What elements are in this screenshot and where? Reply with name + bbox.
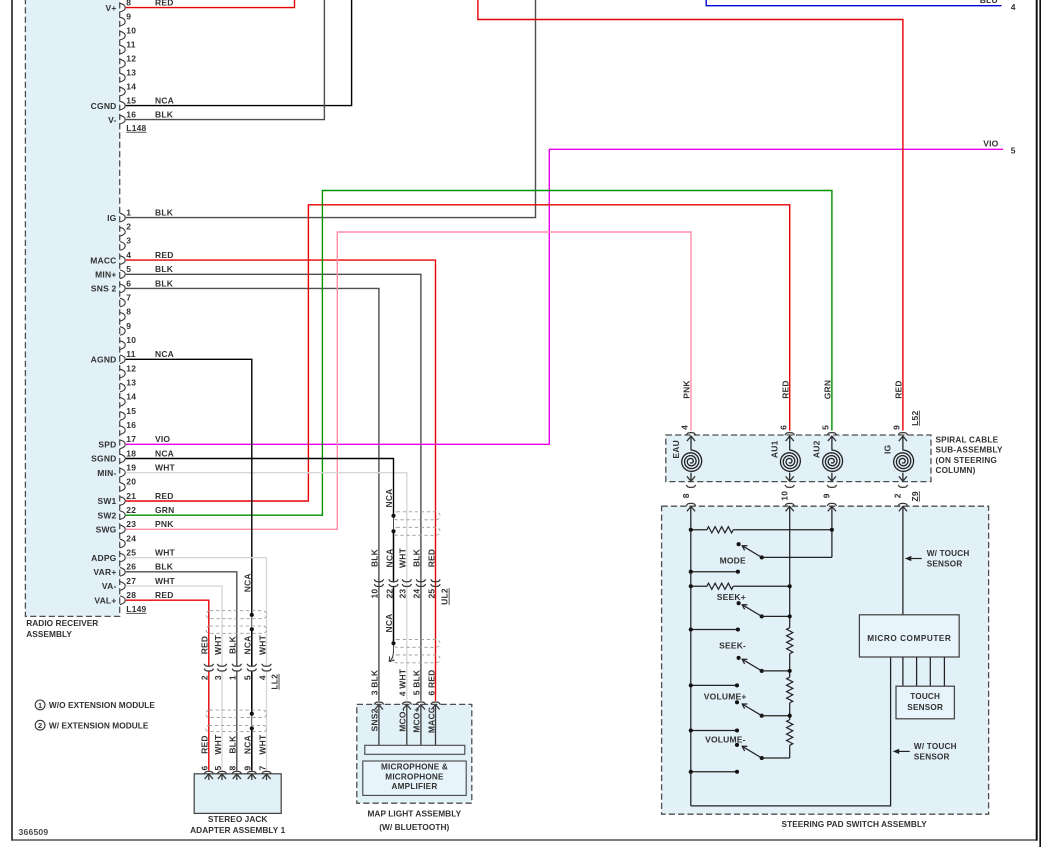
pin label CGND: [91, 101, 117, 111]
svg-text:RED: RED: [155, 250, 174, 260]
svg-text:NCA: NCA: [384, 488, 394, 507]
wire SW1 RED pin21 to spiral AU1: [126, 205, 790, 501]
connector L52 pin numbers: [680, 425, 902, 430]
svg-text:8: 8: [126, 307, 131, 317]
wire VAL+ RED pin28 to stereo jack: [126, 600, 209, 770]
mode switch contact stub: [689, 570, 740, 574]
wire label RED pin8: [155, 0, 174, 7]
inline connector LL2 couplers: [204, 664, 271, 671]
svg-text:Z9: Z9: [910, 491, 920, 501]
pin label V+: [105, 3, 116, 13]
stereo jack entry arrows: [205, 774, 271, 780]
svg-text:STEERING PAD SWITCH ASSEMBLY: STEERING PAD SWITCH ASSEMBLY: [782, 819, 928, 829]
svg-text:MCO+: MCO+: [412, 707, 422, 733]
svg-text:BLK: BLK: [155, 264, 174, 274]
svg-text:26: 26: [126, 562, 136, 572]
connector L149 pin name labels: [90, 213, 116, 606]
pin10 segment R3-R4: [789, 703, 791, 720]
svg-text:COLUMN): COLUMN): [936, 466, 976, 475]
svg-text:SENSOR: SENSOR: [914, 752, 950, 761]
svg-text:5: 5: [243, 675, 253, 680]
svg-text:VIO: VIO: [983, 139, 998, 149]
svg-text:27: 27: [126, 576, 136, 586]
touch sensor box: [896, 686, 954, 719]
NCA shield label map upper: [384, 488, 394, 507]
map light entry couplers: [374, 702, 440, 704]
svg-text:2: 2: [38, 721, 42, 730]
svg-text:8: 8: [126, 0, 131, 7]
microphone amplifier box: [363, 761, 466, 795]
footnote 2 w/ extension module: [35, 720, 149, 730]
connector id L148: [126, 123, 146, 133]
wire SW2 GRN pin22 to spiral AU2: [126, 191, 832, 516]
svg-text:IG: IG: [883, 444, 893, 454]
svg-text:24: 24: [126, 533, 136, 543]
svg-text:TOUCH: TOUCH: [910, 692, 940, 701]
svg-text:11: 11: [126, 39, 135, 49]
UL2 wire color labels: [370, 547, 437, 568]
seek- switch label: [719, 641, 746, 651]
mode switch label: [720, 556, 746, 566]
svg-text:18: 18: [126, 448, 136, 458]
svg-text:11: 11: [126, 349, 135, 359]
bottom return wire: [691, 657, 891, 806]
svg-text:21: 21: [126, 491, 136, 501]
connector L149 wire color labels: [155, 207, 176, 600]
wire label BLK pin16: [155, 109, 174, 119]
wire MIN- WHT pin19 to map light: [126, 473, 407, 701]
svg-text:MAP LIGHT ASSEMBLY: MAP LIGHT ASSEMBLY: [367, 809, 461, 819]
svg-text:UL2: UL2: [440, 588, 450, 605]
svg-text:10: 10: [370, 589, 380, 599]
svg-text:VIO: VIO: [155, 434, 170, 444]
wire V- BLK pin16: [126, 0, 325, 120]
svg-text:WHT: WHT: [213, 734, 223, 755]
shield map lower drain dot: [391, 641, 395, 645]
svg-text:20: 20: [126, 477, 136, 487]
micro computer to touch sensor links: [903, 657, 945, 686]
wire VAR+ BLK pin26 to stereo jack: [126, 572, 237, 771]
svg-text:NCA: NCA: [243, 635, 253, 654]
wire ADPG WHT pin25 to stereo jack: [126, 558, 267, 771]
svg-text:16: 16: [126, 109, 136, 119]
resistor mode row: [691, 527, 832, 533]
svg-text:1: 1: [126, 207, 131, 217]
svg-text:V+: V+: [105, 3, 116, 13]
pin10 segment to volume-: [762, 745, 790, 758]
svg-text:15: 15: [126, 95, 136, 105]
svg-text:RADIO RECEIVER: RADIO RECEIVER: [26, 618, 98, 628]
svg-text:3: 3: [126, 236, 131, 246]
page border left: [11, 0, 13, 841]
junction dots seek resistor: [689, 584, 792, 588]
svg-text:SENSOR: SENSOR: [927, 560, 963, 569]
svg-text:6: 6: [200, 765, 210, 770]
svg-text:BLK: BLK: [155, 562, 174, 572]
spiral cable wire color labels: [682, 380, 904, 400]
svg-text:NCA: NCA: [243, 735, 253, 754]
page edge right: [1039, 0, 1041, 847]
svg-text:PNK: PNK: [682, 380, 692, 399]
junction dots mode resistor: [689, 528, 834, 532]
volume+ contact stub: [689, 728, 739, 732]
svg-text:RED: RED: [426, 549, 436, 568]
svg-text:SW2: SW2: [97, 510, 116, 520]
shield stereo lower: [206, 710, 267, 732]
svg-text:28: 28: [126, 590, 136, 600]
radio receiver assembly box: [25, 0, 119, 616]
svg-text:MCO-: MCO-: [398, 708, 408, 731]
junction dot seek+ pin10: [788, 614, 792, 618]
svg-text:L52: L52: [910, 411, 920, 426]
volume- contact stub: [689, 770, 739, 774]
svg-text:VOLUME-: VOLUME-: [705, 734, 746, 744]
svg-text:14: 14: [126, 81, 136, 91]
svg-text:13: 13: [126, 377, 136, 387]
svg-text:6 RED: 6 RED: [426, 669, 436, 695]
svg-text:366509: 366509: [19, 827, 49, 837]
svg-text:V-: V-: [108, 115, 116, 125]
off-page ref 5: [1011, 145, 1016, 155]
spiral cable exit couplers: [686, 485, 907, 487]
connector L148 pin arcs 8-16: [120, 3, 125, 124]
svg-text:W/ TOUCH: W/ TOUCH: [927, 549, 970, 558]
svg-text:RED: RED: [200, 735, 210, 754]
wire SWG PNK pin23 to spiral EAU: [126, 232, 691, 529]
svg-text:VAR+: VAR+: [93, 567, 116, 577]
micro computer label: [867, 634, 951, 643]
svg-text:BLK: BLK: [370, 548, 380, 567]
svg-text:MICROPHONE &: MICROPHONE &: [381, 763, 448, 772]
seek- contact stub: [689, 683, 739, 687]
stereo jack adapter box: [194, 774, 281, 814]
resistor R3 vertical: [787, 677, 793, 703]
svg-text:9: 9: [822, 493, 832, 498]
wire V+ RED pin8: [126, 0, 295, 8]
svg-text:ASSEMBLY: ASSEMBLY: [26, 629, 72, 639]
svg-text:W/O EXTENSION MODULE: W/O EXTENSION MODULE: [49, 700, 156, 710]
spiral cable coils: [682, 436, 914, 481]
svg-text:BLK: BLK: [155, 278, 174, 288]
connector Z9 pin numbers: [681, 491, 903, 501]
svg-text:RED: RED: [200, 636, 210, 655]
wire label NCA pin15: [155, 95, 174, 105]
svg-text:W/ TOUCH: W/ TOUCH: [914, 742, 957, 751]
inline connector UL2 couplers: [374, 579, 440, 586]
shield stereo lower drain dots: [250, 712, 254, 731]
svg-text:VA-: VA-: [102, 581, 117, 591]
NCA shield label stereo: [242, 573, 252, 592]
svg-text:22: 22: [384, 589, 394, 599]
map light terminal strip: [365, 745, 465, 754]
svg-text:SGND: SGND: [91, 454, 116, 464]
LL2 wire color labels: [200, 634, 268, 655]
footnote 1 w/o extension module: [35, 700, 155, 710]
svg-text:SNS2: SNS2: [370, 708, 380, 731]
svg-text:10: 10: [780, 491, 790, 501]
wire SNS2 BLK pin6 to map light: [126, 288, 379, 700]
svg-text:4: 4: [257, 675, 267, 680]
svg-text:25: 25: [426, 589, 436, 599]
svg-text:(W/ BLUETOOTH): (W/ BLUETOOTH): [379, 822, 449, 832]
svg-text:NCA: NCA: [384, 548, 394, 567]
volume+ switch: [735, 700, 790, 718]
pin10 feed wire: [789, 506, 791, 627]
svg-text:2: 2: [126, 222, 131, 232]
svg-text:22: 22: [126, 505, 136, 515]
resistor seek row: [691, 583, 790, 589]
svg-text:5: 5: [821, 425, 831, 430]
svg-text:NCA: NCA: [384, 613, 394, 632]
svg-text:3: 3: [213, 675, 223, 680]
svg-text:EAU: EAU: [671, 440, 681, 459]
map light assembly box: [357, 704, 472, 803]
left bus wire: [690, 506, 692, 806]
svg-text:5: 5: [1011, 145, 1016, 155]
connector id LL2: [270, 674, 280, 690]
svg-text:PNK: PNK: [155, 519, 174, 529]
svg-text:VOLUME+: VOLUME+: [704, 691, 747, 701]
svg-text:10: 10: [126, 335, 136, 345]
svg-text:12: 12: [126, 53, 136, 63]
svg-text:2: 2: [200, 675, 210, 680]
svg-text:ADAPTER ASSEMBLY 1: ADAPTER ASSEMBLY 1: [190, 825, 285, 835]
map light assembly label: [367, 809, 461, 833]
seek+ contact stub: [689, 627, 740, 631]
svg-text:SPD: SPD: [98, 440, 116, 450]
svg-text:25: 25: [126, 547, 136, 557]
svg-text:BLK: BLK: [155, 109, 174, 119]
connector id L52: [910, 411, 920, 426]
svg-text:LL2: LL2: [270, 674, 280, 690]
svg-text:W/ EXTENSION MODULE: W/ EXTENSION MODULE: [49, 720, 149, 730]
svg-text:BLK: BLK: [228, 635, 238, 654]
steering pad entry arrows: [687, 506, 907, 511]
shield stereo upper drain dots: [250, 613, 254, 631]
svg-text:RED: RED: [894, 380, 904, 399]
w/ touch sensor note lower: [893, 742, 957, 762]
svg-text:9: 9: [126, 321, 131, 331]
svg-text:AGND: AGND: [91, 355, 117, 365]
wire top RED to spiral IG: [478, 0, 903, 431]
svg-text:SEEK+: SEEK+: [717, 592, 746, 602]
svg-text:SWG: SWG: [96, 525, 117, 535]
svg-text:9: 9: [243, 765, 253, 770]
touch sensor label: [907, 692, 943, 712]
svg-text:6: 6: [778, 425, 788, 430]
resistor R4 vertical: [787, 720, 793, 746]
svg-text:4 WHT: 4 WHT: [398, 668, 408, 696]
shield map upper: [393, 512, 440, 536]
stereo jack wire color labels: [200, 734, 268, 755]
svg-text:6: 6: [126, 278, 131, 288]
svg-text:L149: L149: [126, 604, 146, 614]
radio receiver assembly label: [26, 618, 98, 639]
svg-text:BLK: BLK: [228, 735, 238, 754]
svg-text:SEEK-: SEEK-: [719, 641, 746, 651]
svg-text:GRN: GRN: [823, 380, 833, 400]
svg-text:WHT: WHT: [213, 634, 223, 655]
svg-text:RED: RED: [155, 590, 174, 600]
svg-text:MICRO COMPUTER: MICRO COMPUTER: [867, 634, 951, 643]
volume- switch: [735, 743, 764, 760]
w/ touch sensor note upper: [905, 549, 970, 569]
svg-text:MIN+: MIN+: [95, 269, 116, 279]
svg-text:IG: IG: [107, 213, 117, 223]
connector L149 pin numbers: [126, 207, 136, 600]
junction dot seek- pin10: [788, 669, 792, 673]
svg-text:12: 12: [126, 363, 136, 373]
connector L149 pin arcs 1-28: [120, 213, 125, 604]
stereo jack adapter label: [190, 814, 285, 835]
svg-text:BLU: BLU: [980, 0, 998, 5]
resistor R2 vertical: [787, 628, 793, 654]
svg-text:9: 9: [892, 425, 902, 430]
UL2 pin numbers: [370, 589, 437, 599]
svg-text:23: 23: [398, 589, 408, 599]
volume- switch label: [705, 734, 746, 744]
svg-text:BLK: BLK: [155, 207, 174, 217]
seek+ switch label: [717, 592, 746, 602]
map light wire pin labels: [370, 668, 437, 696]
svg-text:RED: RED: [155, 491, 174, 501]
svg-text:SENSOR: SENSOR: [907, 703, 943, 712]
svg-text:NCA: NCA: [242, 573, 252, 592]
svg-text:15: 15: [126, 406, 136, 416]
wire SGND NCA pin18 shield drain: [126, 458, 395, 661]
svg-text:SUB-ASSEMBLY: SUB-ASSEMBLY: [936, 446, 1003, 455]
wire SPD VIO pin17: [126, 149, 1003, 444]
svg-text:SNS 2: SNS 2: [91, 284, 117, 294]
svg-text:MIN-: MIN-: [97, 468, 116, 478]
NCA shield label map lower: [384, 613, 394, 632]
svg-text:RED: RED: [780, 380, 790, 399]
spiral cable assembly label: [936, 436, 1003, 475]
svg-text:VAL+: VAL+: [94, 595, 116, 605]
svg-text:CGND: CGND: [91, 101, 117, 111]
spiral cable box: [666, 435, 931, 482]
svg-text:1: 1: [38, 701, 42, 710]
connector id UL2: [440, 588, 450, 605]
stereo jack pin numbers: [200, 765, 268, 770]
wire VA- WHT pin27 to stereo jack: [126, 586, 222, 770]
svg-text:WHT: WHT: [155, 462, 176, 472]
svg-text:ADPG: ADPG: [91, 553, 117, 563]
svg-text:MACC: MACC: [90, 255, 116, 265]
wire MIN+ BLK pin5 to map light: [126, 274, 421, 701]
svg-text:NCA: NCA: [155, 349, 174, 359]
shield stereo upper: [206, 611, 267, 634]
seek- switch: [737, 656, 790, 673]
shield map lower: [393, 639, 440, 662]
wire IG BLK pin1: [126, 0, 536, 218]
wire AGND NCA pin11 to stereo jack: [126, 359, 252, 770]
svg-text:MACC: MACC: [426, 707, 436, 733]
svg-text:WHT: WHT: [257, 634, 267, 655]
svg-text:10: 10: [126, 25, 136, 35]
micro computer box: [859, 615, 959, 657]
junction dot volume+ pin10: [788, 714, 792, 718]
svg-text:L148: L148: [126, 123, 146, 133]
LL2 pin numbers: [200, 675, 268, 680]
wire BLU off-page: [706, 0, 1001, 6]
svg-text:2: 2: [893, 493, 903, 498]
svg-text:14: 14: [126, 392, 136, 402]
svg-text:16: 16: [126, 420, 136, 430]
stereo jack entry couplers: [204, 771, 271, 773]
svg-text:13: 13: [126, 67, 136, 77]
connector L148 pin numbers: [126, 0, 136, 119]
svg-text:5: 5: [213, 765, 223, 770]
mode switch: [737, 542, 764, 559]
seek+ switch: [737, 601, 790, 618]
svg-text:GRN: GRN: [155, 505, 175, 515]
spiral cable entry couplers: [686, 433, 907, 435]
svg-text:WHT: WHT: [398, 547, 408, 568]
svg-text:1: 1: [228, 675, 238, 680]
svg-text:MODE: MODE: [720, 556, 746, 566]
off-page ref 4: [1011, 2, 1016, 12]
svg-text:3 BLK: 3 BLK: [370, 669, 380, 695]
connector id Z9: [910, 491, 920, 501]
svg-text:4: 4: [126, 250, 131, 260]
svg-text:WHT: WHT: [155, 576, 176, 586]
svg-text:5: 5: [126, 264, 131, 274]
connector id L149: [126, 604, 146, 614]
svg-text:19: 19: [126, 462, 136, 472]
svg-text:5 BLK: 5 BLK: [412, 669, 422, 695]
svg-text:9: 9: [126, 11, 131, 21]
page border right: [1036, 0, 1038, 841]
microphone amplifier label: [381, 763, 448, 792]
svg-text:NCA: NCA: [155, 95, 174, 105]
steering pad entry couplers: [686, 503, 907, 505]
pin9 feed wire: [762, 506, 832, 557]
svg-text:WHT: WHT: [155, 547, 176, 557]
svg-text:8: 8: [681, 493, 691, 498]
svg-text:BLK: BLK: [412, 548, 422, 567]
svg-text:(ON STEERING: (ON STEERING: [936, 456, 998, 465]
svg-text:AU1: AU1: [770, 440, 780, 458]
svg-text:AMPLIFIER: AMPLIFIER: [392, 782, 438, 791]
map light entry arrows and leads: [375, 705, 440, 746]
pin label V-: [108, 115, 116, 125]
drawing number 366509: [19, 827, 49, 837]
shield map upper drain dots: [391, 514, 395, 534]
wire MACC RED pin4 to map light: [126, 260, 436, 701]
svg-text:7: 7: [126, 292, 131, 302]
pin2 feed wire to micro computer: [902, 506, 904, 614]
svg-text:4: 4: [1011, 2, 1016, 12]
spiral cable channel labels: [671, 440, 893, 459]
volume+ switch label: [704, 691, 747, 701]
page border bottom: [11, 839, 1037, 841]
svg-text:WHT: WHT: [257, 734, 267, 755]
svg-text:17: 17: [126, 434, 136, 444]
svg-text:NCA: NCA: [155, 448, 174, 458]
svg-text:AU2: AU2: [812, 440, 822, 458]
svg-text:SPIRAL CABLE: SPIRAL CABLE: [936, 436, 999, 445]
svg-text:STEREO JACK: STEREO JACK: [208, 814, 268, 824]
wire label BLU: [980, 0, 998, 5]
svg-text:RED: RED: [155, 0, 174, 7]
svg-text:8: 8: [228, 765, 238, 770]
svg-text:MICROPHONE: MICROPHONE: [385, 772, 444, 781]
pin10 segment R2-R3: [789, 654, 791, 677]
steering pad switch box: [662, 506, 989, 814]
svg-text:24: 24: [412, 589, 422, 599]
wire CGND NCA pin15: [126, 0, 352, 106]
